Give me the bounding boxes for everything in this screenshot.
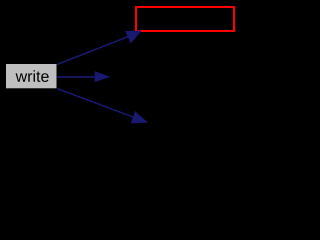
edge write->bottom node bbox=[57, 89, 147, 124]
node write bbox=[6, 64, 57, 88]
node (red, truncated) bbox=[136, 7, 234, 31]
edge write->red node bbox=[57, 31, 141, 65]
edge write->middle node bbox=[57, 72, 109, 82]
